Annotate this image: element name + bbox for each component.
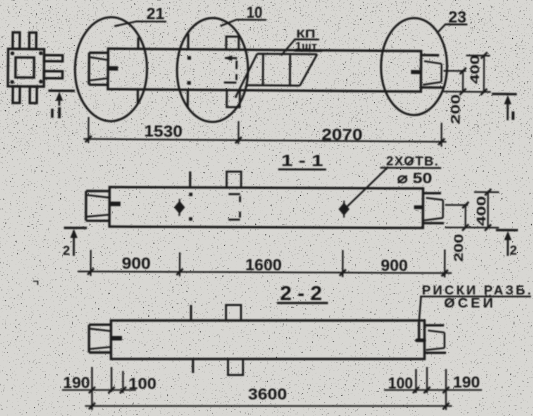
svg-text:1600: 1600: [245, 257, 282, 274]
svg-text:2 - 2: 2 - 2: [280, 283, 322, 305]
svg-text:2ХОТВ.: 2ХОТВ.: [386, 153, 438, 168]
svg-text:2: 2: [63, 243, 70, 258]
svg-text:10: 10: [246, 5, 262, 22]
svg-text:1530: 1530: [144, 123, 183, 140]
svg-text:100: 100: [129, 376, 157, 393]
svg-text:3600: 3600: [248, 387, 287, 404]
svg-text:900: 900: [381, 258, 408, 275]
svg-text:2070: 2070: [321, 127, 362, 144]
svg-text:1 - 1: 1 - 1: [281, 153, 323, 170]
svg-text:2: 2: [510, 243, 517, 258]
svg-text:400: 400: [474, 196, 488, 226]
svg-text:23: 23: [448, 9, 466, 26]
svg-text:КП: КП: [296, 29, 315, 41]
svg-text:100: 100: [388, 376, 413, 393]
svg-text:⌀ 50: ⌀ 50: [397, 171, 432, 187]
svg-text:190: 190: [453, 375, 480, 392]
svg-text:1шт: 1шт: [295, 41, 318, 53]
svg-text:200: 200: [449, 94, 463, 124]
svg-text:190: 190: [63, 375, 90, 392]
svg-text:400: 400: [468, 55, 482, 84]
svg-text:21: 21: [146, 6, 164, 23]
svg-text:200: 200: [452, 234, 466, 262]
svg-text:900: 900: [122, 256, 151, 273]
